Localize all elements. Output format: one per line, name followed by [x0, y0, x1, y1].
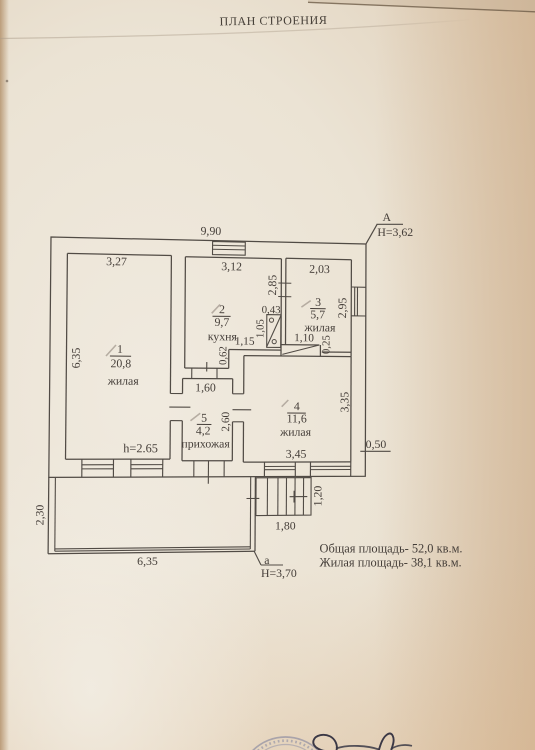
- svg-text:1,15: 1,15: [235, 336, 255, 348]
- door прихожая-room4 top cap: [233, 393, 244, 395]
- прихожая left wall lower: [181, 421, 183, 461]
- entrance door left jamb: [193, 461, 195, 477]
- room 1 жилая outline (top/left/bottom): [66, 253, 172, 459]
- dimension tick on kitchen right wall lower: [278, 296, 291, 298]
- stairs centre tick: [293, 491, 295, 503]
- svg-text:1,10: 1,10: [294, 332, 314, 344]
- room 3 bottom wall left of door: [281, 344, 319, 346]
- paper top edge dark wedge: [308, 0, 535, 12]
- node A underline: [377, 223, 404, 225]
- прихожая right wall upper: [232, 379, 234, 394]
- room 3 bottom wall right segment: [322, 351, 351, 353]
- прихожая left wall upper: [182, 379, 184, 394]
- stamp outer arc: [239, 737, 332, 750]
- signature stroke 4: [391, 745, 412, 749]
- signature stroke 2: [336, 746, 379, 750]
- window W4 in room4 bottom wall: [310, 462, 350, 477]
- svg-text:h=2.65: h=2.65: [123, 441, 158, 455]
- terrace right tick: [247, 497, 260, 499]
- svg-text:прихожая: прихожая: [181, 436, 230, 450]
- node A leader diagonal: [366, 224, 377, 243]
- room 4 жилая top wall: [244, 356, 351, 357]
- svg-text:2,03: 2,03: [309, 262, 330, 276]
- left edge dark strip: [0, 0, 9, 750]
- paper speck: [6, 80, 9, 83]
- svg-text:ПЛАН СТРОЕНИЯ: ПЛАН СТРОЕНИЯ: [219, 13, 327, 29]
- room 3 fraction bar: [310, 308, 326, 310]
- door прихожая-room4 bottom cap: [233, 421, 244, 423]
- chimney flue on top wall: [213, 242, 246, 256]
- room 1 fraction bar: [110, 355, 131, 357]
- room 4 fraction bar: [287, 412, 306, 414]
- svg-text:Жилая площадь- 38,1 кв.м.: Жилая площадь- 38,1 кв.м.: [320, 555, 462, 569]
- svg-text:1,20: 1,20: [311, 486, 325, 507]
- svg-text:6,35: 6,35: [69, 348, 83, 369]
- hand tick room5: [191, 413, 201, 420]
- kitchen right wall: [280, 259, 282, 356]
- stairs steps: [267, 478, 303, 516]
- door kitchen-прихожая tick: [206, 362, 208, 372]
- svg-text:0,50: 0,50: [366, 437, 387, 451]
- stamp inner arc: [247, 745, 325, 750]
- svg-text:2,60: 2,60: [220, 411, 232, 431]
- svg-text:3,27: 3,27: [106, 254, 127, 268]
- svg-text:жилая: жилая: [107, 374, 140, 388]
- svg-text:2,85: 2,85: [265, 274, 279, 295]
- stairs centre line: [290, 496, 308, 498]
- fold crease line: [0, 15, 535, 39]
- svg-text:А: А: [383, 210, 392, 224]
- svg-text:0,43: 0,43: [262, 304, 281, 316]
- door room1-прихожая leaf line: [169, 406, 190, 408]
- svg-text:0,62: 0,62: [217, 346, 229, 365]
- terrace inner left line: [54, 477, 57, 551]
- room 2 fraction bar: [213, 315, 231, 317]
- door room1-прихожая bottom cap: [170, 420, 182, 422]
- room 1 right wall lower: [169, 421, 171, 460]
- room 4 left wall upper: [243, 356, 245, 394]
- svg-text:9,7: 9,7: [214, 315, 229, 329]
- svg-text:3,35: 3,35: [337, 392, 351, 413]
- window W3 in room4 bottom wall: [264, 462, 295, 477]
- svg-text:кухня: кухня: [208, 329, 238, 343]
- svg-text:Н=3,62: Н=3,62: [377, 225, 413, 239]
- kitchen bottom-right wall: [229, 349, 281, 352]
- door room1-прихожая top cap: [170, 393, 182, 395]
- svg-text:Н=3,70: Н=3,70: [261, 566, 297, 580]
- node a underline: [261, 564, 283, 566]
- stairs outline: [256, 478, 311, 516]
- door прихожая-room4 leaf line: [233, 409, 252, 411]
- svg-text:11,6: 11,6: [287, 411, 307, 425]
- door box kitchen wall: [267, 315, 281, 348]
- room 3 door leaf diagonal: [282, 345, 319, 354]
- room 3 door jamb: [319, 345, 321, 356]
- room 1 right wall upper: [170, 256, 171, 394]
- svg-text:жилая: жилая: [279, 425, 312, 439]
- door box diagonal: [267, 316, 281, 347]
- hand tick room3: [301, 301, 310, 308]
- svg-text:6,35: 6,35: [137, 554, 158, 568]
- room 4 left wall lower: [242, 422, 244, 462]
- dimension 0,50 underline: [360, 450, 390, 452]
- door box hinge circle bottom: [272, 340, 276, 344]
- svg-text:20,8: 20,8: [110, 356, 131, 370]
- svg-text:1,60: 1,60: [195, 380, 216, 394]
- kitchen room 2 outline top/left: [185, 257, 282, 368]
- svg-text:1,80: 1,80: [275, 519, 296, 533]
- chimney inner line 2: [213, 248, 246, 251]
- paper top edge line: [308, 2, 535, 12]
- svg-text:1,05: 1,05: [254, 319, 266, 338]
- chimney inner line 1: [213, 244, 246, 247]
- svg-text:2,30: 2,30: [33, 505, 47, 526]
- svg-text:3,12: 3,12: [221, 259, 242, 273]
- svg-text:2,95: 2,95: [335, 297, 349, 318]
- terrace inner bottom line 1: [55, 547, 251, 549]
- door kitchen-прихожая left jamb: [191, 368, 193, 379]
- прихожая right wall lower: [231, 422, 233, 461]
- signature stroke 1: [313, 735, 337, 750]
- entrance door right jamb: [223, 461, 225, 477]
- hand tick room2: [212, 305, 220, 314]
- signature stroke 3: [379, 734, 394, 750]
- window W2 in room1 bottom wall: [131, 459, 163, 477]
- svg-text:3,45: 3,45: [286, 447, 307, 461]
- terrace inner bottom line 2: [55, 549, 251, 551]
- door kitchen-прихожая right jamb: [216, 368, 218, 378]
- kitchen bottom-left wall: [185, 367, 229, 369]
- room 3 жилая outline top/left/right: [286, 258, 352, 356]
- kitchen step wall 0,62: [228, 350, 230, 369]
- window W5 room3 right wall: [351, 287, 366, 316]
- outer wall outline: [49, 237, 366, 477]
- entrance door centre line: [207, 461, 209, 484]
- room 4 right wall: [350, 357, 352, 462]
- stamp arc lettering dots: [243, 741, 329, 750]
- node a leader diagonal: [254, 552, 261, 566]
- hand tick room1: [106, 345, 116, 356]
- прихожая bottom wall: [182, 460, 232, 462]
- door box hinge circle top: [269, 318, 273, 322]
- svg-text:0,25: 0,25: [320, 335, 332, 354]
- dimension tick on kitchen right wall upper: [278, 282, 291, 284]
- terrace outline: [48, 477, 255, 554]
- room 5 fraction bar: [197, 423, 212, 425]
- svg-text:9,90: 9,90: [200, 224, 221, 238]
- svg-text:4,2: 4,2: [196, 423, 211, 437]
- svg-text:1: 1: [117, 342, 123, 356]
- terrace inner right line: [249, 477, 251, 549]
- прихожая room 5 top wall: [183, 378, 233, 380]
- room 4 bottom wall: [243, 461, 350, 463]
- svg-text:Общая площадь- 52,0 кв.м.: Общая площадь- 52,0 кв.м.: [320, 542, 463, 556]
- hand tick room4: [282, 400, 289, 407]
- window W1 in room1 bottom wall: [82, 459, 114, 477]
